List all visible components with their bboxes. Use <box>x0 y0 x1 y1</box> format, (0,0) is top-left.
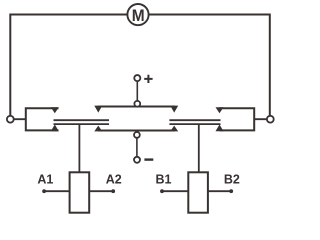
svg-text:M: M <box>132 6 145 25</box>
svg-text:B1: B1 <box>156 173 172 187</box>
svg-text:A1: A1 <box>37 173 53 187</box>
svg-text:A2: A2 <box>106 173 122 187</box>
svg-text:B2: B2 <box>224 173 240 187</box>
